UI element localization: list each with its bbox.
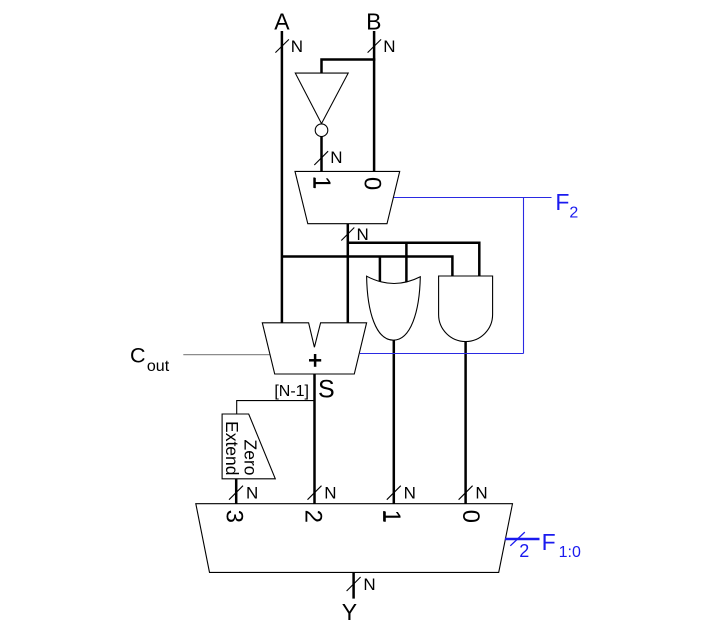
- mux4 label 1 foot serif: [383, 511, 385, 521]
- mux2 label 1 foot serif: [313, 178, 315, 188]
- svg-text:0: 0: [457, 510, 484, 523]
- svg-text:2: 2: [519, 541, 529, 561]
- wire A bus: [281, 31, 284, 323]
- inverter bubble: [315, 124, 328, 137]
- wire F2 to adder carry-in (blue): [360, 353, 524, 355]
- zero extend block: [222, 414, 275, 479]
- svg-text:N: N: [246, 483, 258, 502]
- wire B to inverter horizontal: [322, 60, 376, 74]
- svg-text:C: C: [130, 344, 146, 368]
- mux4 (4:1 multiplexer): [196, 504, 513, 573]
- wire B bus: [373, 31, 376, 172]
- mux2 (2:1 multiplexer): [295, 171, 400, 223]
- wire upper branch to AND right input: [348, 243, 480, 279]
- bus slash mux2 output: [341, 228, 354, 241]
- svg-text:F: F: [542, 529, 556, 555]
- wire S[N-1] tap to zero-extend: [237, 401, 315, 414]
- wire F1:0 select stub (blue): [505, 538, 540, 541]
- svg-text:1: 1: [378, 510, 405, 523]
- svg-text:N: N: [324, 483, 336, 502]
- svg-text:1: 1: [308, 176, 335, 189]
- svg-text:Y: Y: [342, 599, 357, 625]
- wire OR right input: [405, 243, 408, 285]
- wire lower branch from A to AND left input: [282, 257, 453, 280]
- adder: [262, 323, 366, 374]
- svg-text:N: N: [363, 575, 375, 594]
- wire mux2 output to adder: [347, 224, 350, 323]
- bus slash A: [275, 39, 289, 52]
- svg-text:3: 3: [221, 510, 248, 523]
- svg-text:A: A: [274, 9, 290, 35]
- bus slash inverter output: [314, 151, 328, 165]
- svg-text:N: N: [383, 37, 395, 56]
- wire F2 vertical (blue): [523, 198, 525, 354]
- inverter U1: [295, 73, 348, 124]
- bus slash B: [368, 39, 382, 52]
- svg-text:N: N: [330, 148, 342, 167]
- svg-text:[N-1]: [N-1]: [274, 383, 309, 400]
- svg-text:S: S: [318, 376, 335, 404]
- svg-text:B: B: [366, 9, 381, 35]
- bus slash S input mux4: [308, 486, 322, 500]
- adder plus label: [309, 359, 321, 362]
- wire inverter output: [320, 137, 323, 172]
- wire F2 select (blue): [394, 197, 552, 199]
- svg-text:2: 2: [299, 510, 326, 523]
- wire OR output: [393, 338, 396, 504]
- wire OR left input: [379, 257, 382, 286]
- wire Y output: [352, 572, 355, 598]
- wire S bus: [313, 374, 316, 504]
- bus slash F1:0: [510, 532, 525, 546]
- bus slash OR input mux4: [387, 486, 401, 500]
- svg-text:N: N: [357, 225, 369, 244]
- svg-text:N: N: [291, 37, 303, 56]
- wire zero-extend output: [235, 479, 238, 504]
- svg-text:2: 2: [569, 204, 578, 221]
- OR gate: [367, 276, 421, 340]
- svg-text:out: out: [147, 358, 170, 375]
- svg-text:F: F: [555, 189, 569, 215]
- svg-text:0: 0: [359, 177, 386, 190]
- svg-text:1:0: 1:0: [559, 544, 581, 561]
- svg-text:N: N: [404, 483, 416, 502]
- svg-text:Extend: Extend: [222, 421, 242, 475]
- wire AND output: [464, 338, 467, 504]
- svg-text:Zero: Zero: [240, 440, 260, 476]
- bus slash Y output: [347, 577, 361, 591]
- wire C_out (gray): [183, 354, 270, 356]
- bus slash zero-extend output: [229, 486, 243, 500]
- bus slash AND input mux4: [459, 486, 473, 500]
- svg-text:N: N: [475, 483, 487, 502]
- AND gate: [439, 276, 493, 342]
